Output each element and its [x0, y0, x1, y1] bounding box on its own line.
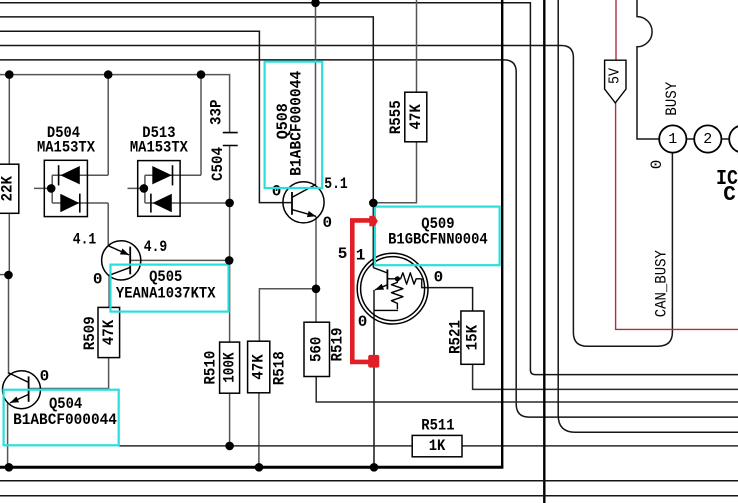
svg-text:R521: R521: [446, 320, 464, 354]
svg-text:100K: 100K: [221, 352, 239, 383]
svg-text:1: 1: [668, 131, 677, 148]
svg-text:0: 0: [322, 214, 332, 232]
svg-text:B1ABCF000044: B1ABCF000044: [287, 71, 305, 176]
svg-text:5: 5: [338, 245, 348, 263]
svg-text:CAN_BUSY: CAN_BUSY: [653, 250, 671, 318]
svg-text:MA153TX: MA153TX: [130, 139, 188, 157]
svg-text:5V: 5V: [607, 68, 624, 84]
svg-text:22K: 22K: [0, 176, 17, 202]
svg-text:1K: 1K: [429, 437, 446, 455]
svg-text:YEANA1037KTX: YEANA1037KTX: [116, 284, 216, 302]
svg-text:R509: R509: [81, 316, 99, 350]
svg-text:0: 0: [272, 182, 282, 200]
svg-text:47K: 47K: [100, 319, 118, 345]
svg-text:BUSY: BUSY: [663, 81, 681, 115]
svg-text:R519: R519: [328, 328, 346, 362]
svg-text:33P: 33P: [207, 99, 225, 125]
svg-text:0: 0: [93, 271, 103, 289]
svg-text:0: 0: [40, 368, 50, 386]
svg-text:R555: R555: [387, 100, 405, 134]
svg-text:0: 0: [648, 160, 666, 170]
svg-text:4.9: 4.9: [144, 238, 167, 256]
svg-text:15K: 15K: [463, 325, 481, 351]
svg-text:MA153TX: MA153TX: [37, 139, 95, 157]
svg-text:R511: R511: [421, 417, 454, 435]
svg-text:C: C: [723, 184, 736, 207]
svg-text:R510: R510: [202, 351, 220, 385]
svg-text:5.1: 5.1: [324, 175, 347, 193]
svg-text:0: 0: [358, 313, 368, 331]
svg-text:B1ABCF000044: B1ABCF000044: [13, 411, 117, 429]
svg-text:C504: C504: [209, 147, 227, 181]
svg-text:47K: 47K: [250, 354, 268, 380]
svg-text:Q505: Q505: [149, 268, 182, 286]
svg-text:B1GBCFNN0004: B1GBCFNN0004: [388, 230, 488, 248]
svg-text:R518: R518: [271, 351, 289, 385]
svg-text:560: 560: [308, 337, 326, 363]
svg-text:47K: 47K: [407, 104, 425, 130]
svg-text:2: 2: [703, 131, 712, 148]
svg-text:4.1: 4.1: [73, 231, 96, 249]
svg-text:0: 0: [434, 268, 444, 286]
svg-text:1: 1: [356, 247, 366, 265]
